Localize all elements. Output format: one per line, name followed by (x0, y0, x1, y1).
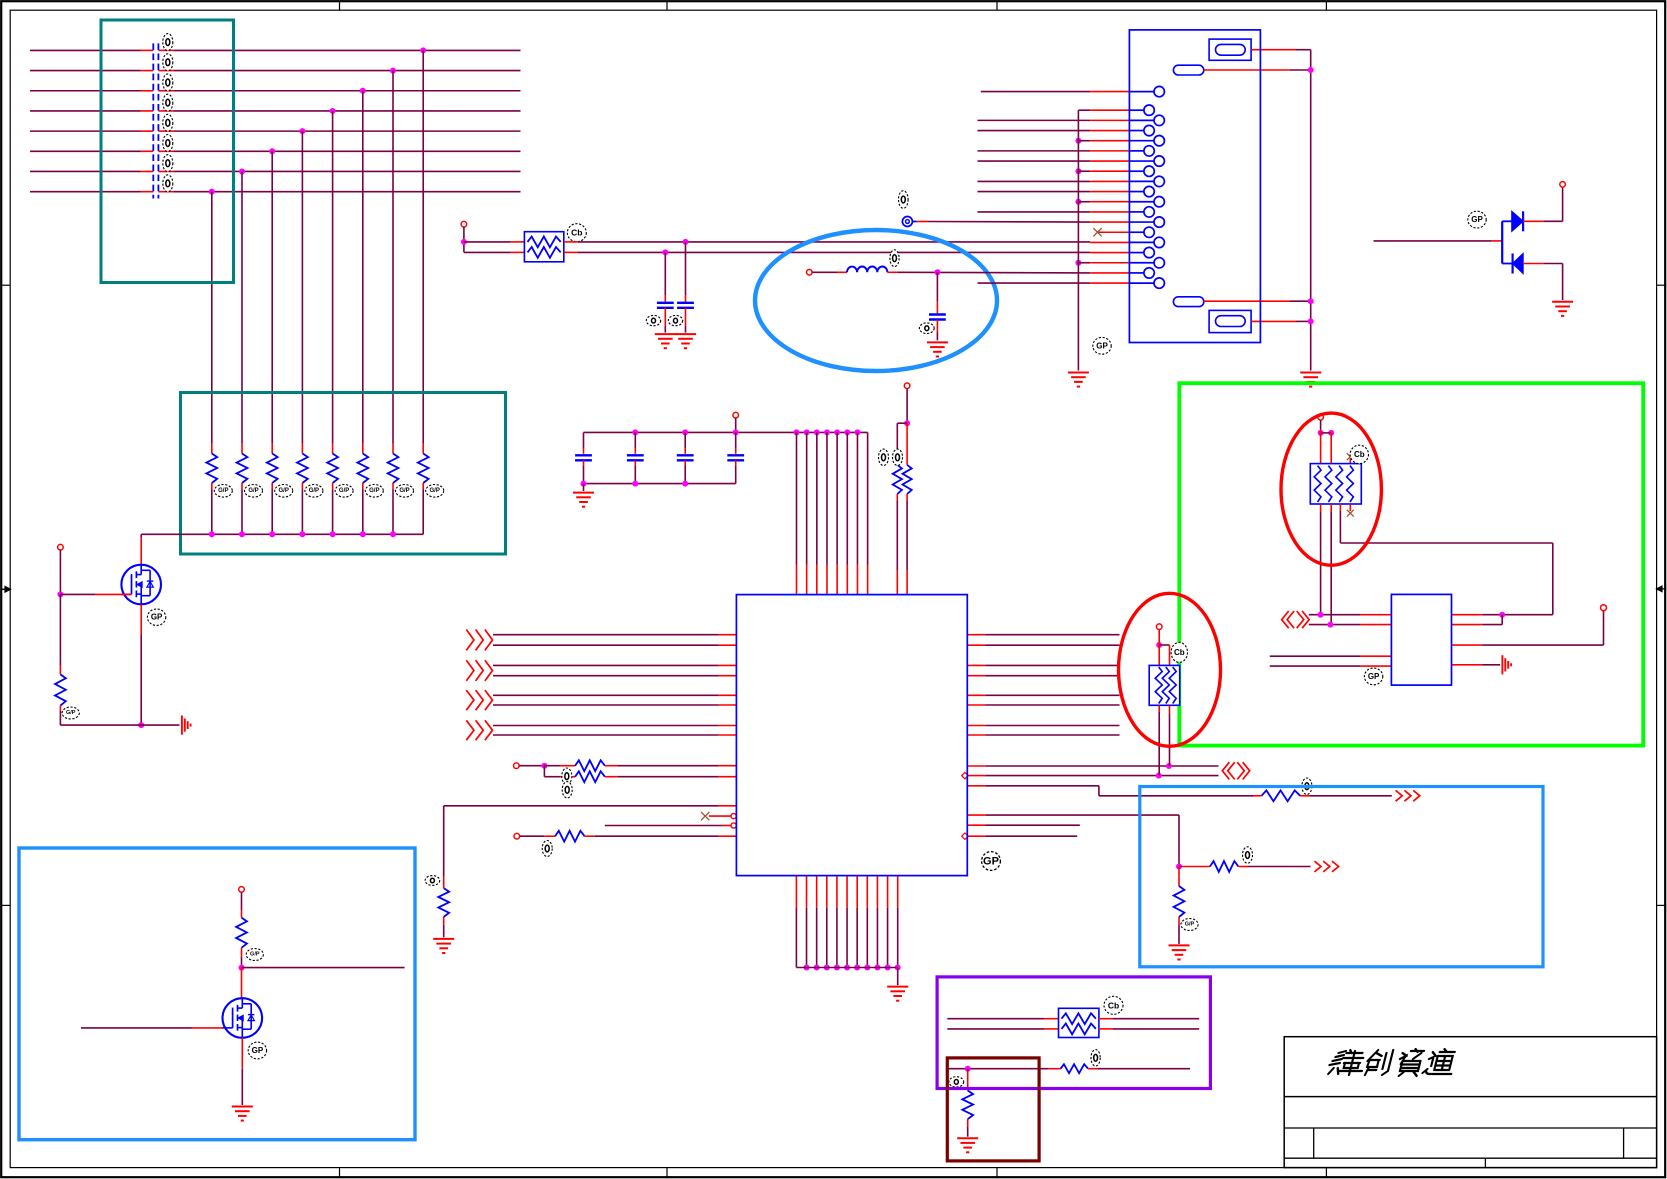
svg-text:Cb: Cb (1108, 1000, 1119, 1010)
svg-text:G/P: G/P (218, 488, 228, 494)
svg-text:Cb: Cb (1354, 450, 1365, 459)
svg-text:GP: GP (252, 1046, 264, 1055)
svg-text:G/P: G/P (309, 488, 319, 494)
svg-text:G/P: G/P (399, 488, 409, 494)
svg-text:GP: GP (1471, 215, 1483, 224)
svg-text:GP: GP (983, 856, 999, 868)
svg-text:GP: GP (1368, 672, 1380, 681)
svg-text:G/P: G/P (339, 488, 349, 494)
svg-text:G/P: G/P (248, 488, 258, 494)
svg-text:G/P: G/P (430, 488, 440, 494)
svg-text:G/P: G/P (66, 710, 76, 716)
svg-text:GP: GP (151, 613, 163, 622)
svg-text:G/P: G/P (279, 488, 289, 494)
svg-text:G/P: G/P (369, 488, 379, 494)
svg-text:Cb: Cb (1174, 648, 1185, 657)
svg-text:G/P: G/P (1185, 922, 1195, 928)
svg-text:Cb: Cb (571, 228, 582, 238)
svg-text:GP: GP (1096, 341, 1108, 350)
svg-text:G/P: G/P (250, 952, 260, 958)
